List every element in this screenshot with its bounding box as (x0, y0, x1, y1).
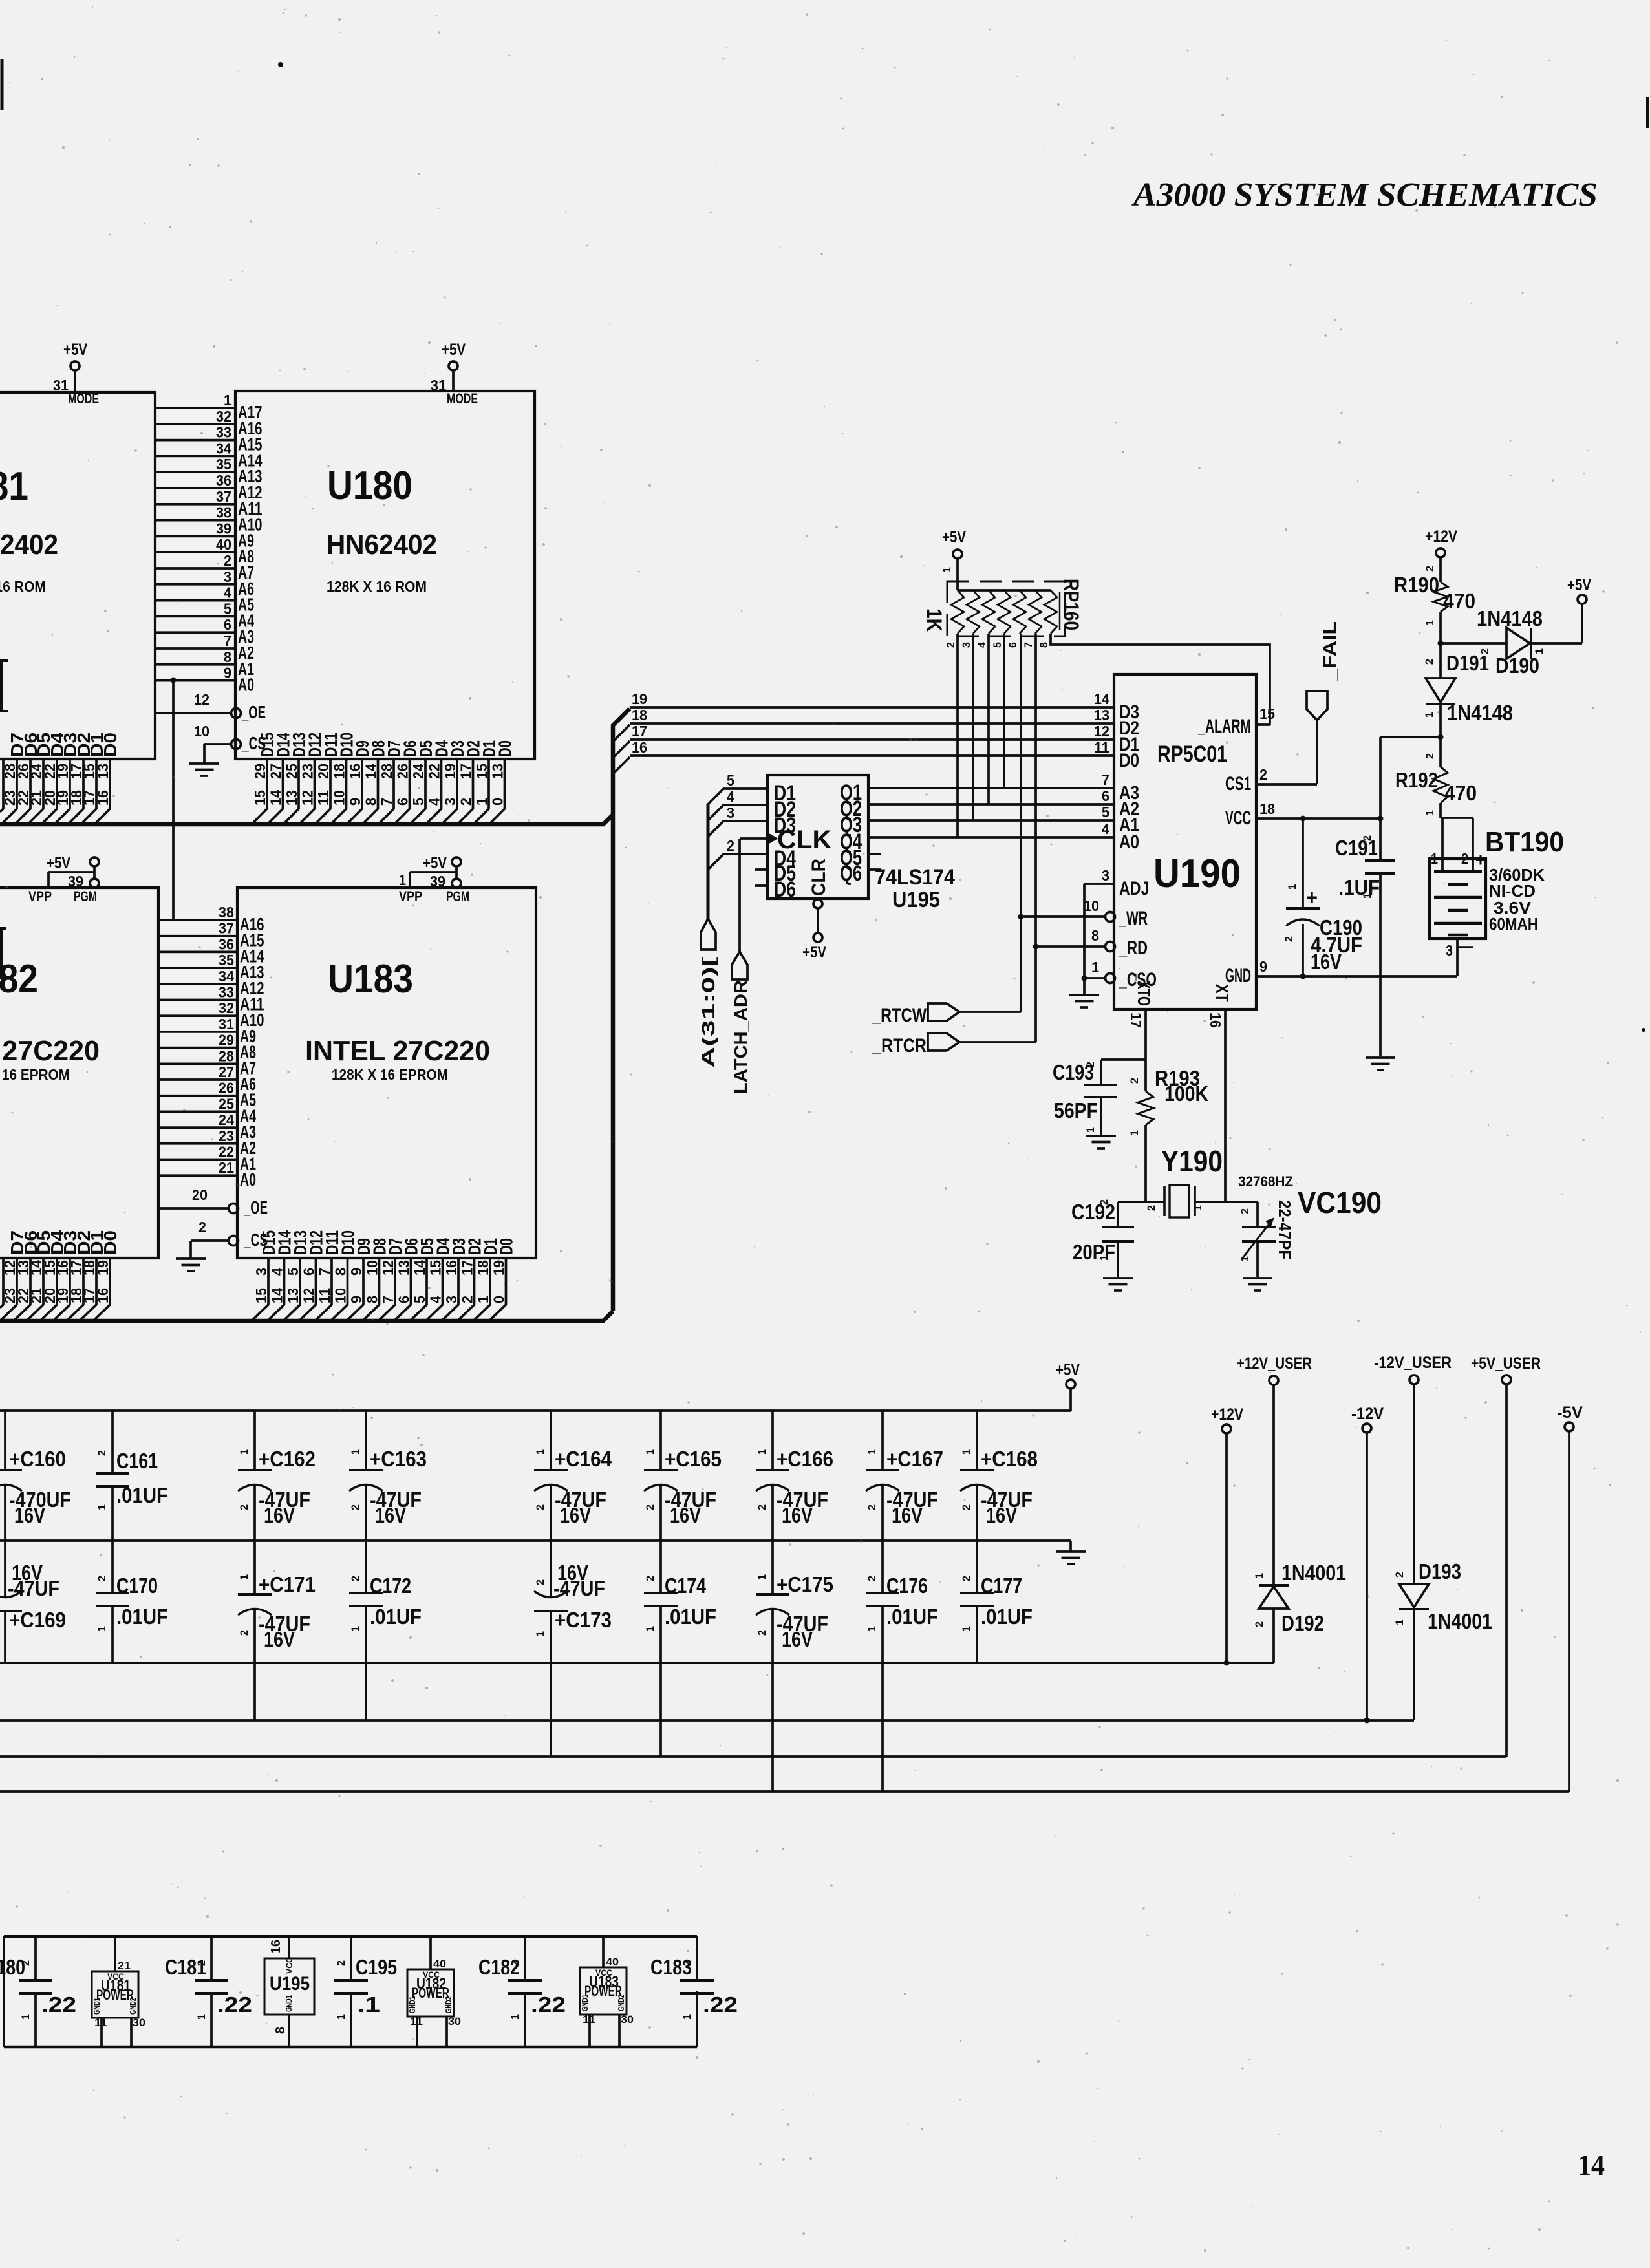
svg-text:5: 5 (727, 772, 734, 789)
svg-text:14: 14 (363, 764, 380, 779)
svg-text:.22: .22 (703, 1993, 738, 2017)
svg-text:+C171: +C171 (259, 1572, 316, 1596)
svg-text:C182: C182 (478, 1955, 520, 1979)
svg-text:16: 16 (632, 739, 647, 756)
svg-text:2: 2 (644, 1576, 656, 1581)
svg-text:31: 31 (219, 1016, 234, 1032)
svg-text:-12V_USER: -12V_USER (1374, 1354, 1452, 1372)
page edge mark right top (1646, 97, 1649, 128)
svg-text:9: 9 (224, 665, 231, 681)
svg-text:16: 16 (94, 1288, 111, 1303)
svg-text:128K X 16 ROM: 128K X 16 ROM (327, 578, 427, 595)
svg-text:39: 39 (430, 873, 445, 890)
wire RP160-3 pullup to A2 (987, 634, 990, 804)
+5V terminal right (1578, 595, 1587, 604)
svg-text:34: 34 (219, 968, 234, 985)
svg-text:GND2: GND2 (616, 1995, 626, 2011)
svg-text:30: 30 (133, 2017, 145, 2029)
svg-text:128K X 16 ROM: 128K X 16 ROM (0, 578, 46, 595)
U195 CLK input with clock triangle (767, 833, 777, 844)
wire D191 cathode to C191 branch (1380, 736, 1441, 738)
svg-text:15: 15 (427, 1260, 444, 1276)
svg-text:1: 1 (1424, 620, 1436, 626)
svg-text:22: 22 (426, 764, 443, 779)
wire CLK to LATCH_ADR flag (738, 839, 741, 952)
svg-text:1: 1 (1098, 1255, 1110, 1261)
svg-text:470: 470 (1443, 589, 1475, 613)
svg-text:1: 1 (1091, 959, 1099, 976)
svg-text:100K: 100K (1164, 1082, 1208, 1106)
resistor RP160 element 6 (1029, 590, 1042, 634)
svg-text:9: 9 (1259, 958, 1267, 975)
svg-text:2: 2 (349, 1576, 361, 1581)
svg-text:7: 7 (378, 798, 395, 806)
svg-text:11: 11 (583, 2013, 595, 2026)
svg-text:5: 5 (411, 1296, 428, 1303)
svg-text:2: 2 (960, 1576, 972, 1581)
svg-text:9: 9 (348, 1268, 365, 1276)
wire ROM address A0 pin 9 (155, 679, 235, 682)
IC U180 box (235, 391, 535, 759)
IC U182 power block (407, 1969, 454, 2017)
svg-text:MODE: MODE (447, 390, 478, 407)
svg-text:U182: U182 (0, 957, 38, 1001)
svg-text:GND2: GND2 (444, 1996, 453, 2013)
svg-text:3: 3 (1102, 867, 1109, 884)
U195 Q6 stub (868, 868, 881, 871)
resistor RP160 element 1 (951, 590, 964, 634)
svg-text:0: 0 (489, 798, 506, 806)
svg-text:+: + (1306, 886, 1318, 909)
svg-text:1: 1 (960, 1626, 972, 1632)
svg-text:1: 1 (238, 1574, 250, 1580)
svg-text:56PF: 56PF (1054, 1098, 1098, 1122)
svg-text:16: 16 (269, 1940, 283, 1954)
svg-text:.22: .22 (41, 1993, 76, 2017)
svg-text:2: 2 (681, 1960, 693, 1966)
wire EPROM address A10 pin 32 (158, 1014, 237, 1017)
svg-text:2: 2 (1424, 753, 1436, 759)
svg-text:+C169: +C169 (9, 1608, 66, 1632)
IC U183 box (237, 888, 536, 1258)
svg-text:+5V: +5V (942, 528, 966, 546)
wire EPROM address A9 pin 31 (158, 1031, 237, 1033)
U195 input D3 pin 3 wire (723, 820, 767, 822)
svg-text:A0: A0 (1119, 831, 1139, 853)
svg-text:.01UF: .01UF (370, 1605, 422, 1629)
svg-text:+C168: +C168 (981, 1447, 1038, 1471)
U190 _RD pin 8 bubble and wire (1036, 945, 1106, 948)
wire 45 join D1 to address bus (708, 789, 723, 804)
wire ground rail of capacitor bank (0, 1539, 1071, 1542)
svg-text:11: 11 (94, 2017, 107, 2029)
svg-text:6: 6 (396, 1296, 412, 1303)
svg-text:1: 1 (19, 2014, 32, 2020)
svg-text:1: 1 (195, 2014, 208, 2020)
svg-text:10: 10 (1084, 897, 1099, 914)
svg-text:13: 13 (489, 764, 506, 779)
wire EPROM address A11 pin 33 (158, 999, 237, 1001)
U183 _CS pin 2 with bubble (191, 1239, 229, 1242)
wire _RTCR to _RD (959, 1041, 1036, 1043)
wire ROM address A4 pin 5 (155, 615, 235, 618)
wire EPROM address A0 pin 21 (158, 1174, 237, 1177)
svg-text:D193: D193 (1419, 1559, 1461, 1583)
svg-text:1: 1 (1239, 1256, 1251, 1262)
diode D190 1N4148 (1506, 628, 1530, 659)
svg-text:-12V: -12V (1351, 1405, 1384, 1423)
svg-text:.22: .22 (531, 1993, 566, 2017)
svg-text:16V: 16V (986, 1503, 1017, 1527)
svg-text:29: 29 (219, 1032, 234, 1049)
svg-text:38: 38 (216, 504, 231, 521)
svg-text:-47UF: -47UF (8, 1576, 59, 1600)
svg-text:24: 24 (219, 1111, 234, 1128)
svg-text:CLR: CLR (808, 859, 830, 896)
svg-text:2: 2 (1259, 766, 1267, 783)
U182 data pin D8 (clipped at edge) (2, 1258, 5, 1305)
wire EPROM address A8 pin 29 (158, 1047, 237, 1049)
svg-text:R192: R192 (1395, 768, 1438, 792)
svg-text:+12V: +12V (1211, 1406, 1243, 1424)
svg-text:.22: .22 (217, 1993, 252, 2017)
IC U183 power block (580, 1967, 627, 2015)
U181 ground pins 11 30 wires (100, 2018, 103, 2047)
U183 _OE pin 20 with bubble (158, 1207, 229, 1210)
wire RP160-6 pullup to _RD and _RTCR (1034, 634, 1037, 1042)
U195 Q5 stub (868, 853, 881, 855)
svg-text:+: + (1475, 850, 1486, 871)
svg-text:D0: D0 (495, 740, 515, 757)
svg-text:7: 7 (1022, 642, 1034, 648)
svg-text:C161: C161 (116, 1449, 158, 1473)
svg-text:Q6: Q6 (840, 861, 862, 886)
svg-text:C195: C195 (356, 1955, 397, 1979)
wire RP160-5 pullup to _WR and _RTCW (1020, 634, 1022, 1012)
wire data bit 18 to U190 (630, 722, 1114, 725)
bus vertical riser joining data buses (613, 709, 630, 1311)
wire ROM address A8 pin 40 (155, 551, 235, 553)
svg-text:CS1: CS1 (1225, 773, 1251, 795)
U183 VCC pin 40 wire (602, 1936, 605, 1967)
wire ROM address A16 pin 32 (155, 423, 235, 425)
svg-text:16: 16 (94, 790, 111, 806)
svg-text:26: 26 (219, 1080, 234, 1097)
svg-text:7: 7 (224, 632, 231, 649)
+5V terminal above capacitor bank (1066, 1380, 1075, 1389)
svg-text:D0: D0 (100, 733, 120, 757)
wire ROM address A12 pin 36 (155, 487, 235, 489)
wire RP160-2 pullup to A1 (972, 634, 974, 820)
svg-text:14: 14 (411, 1260, 428, 1276)
svg-text:LATCH_ADR: LATCH_ADR (731, 980, 751, 1094)
wire crystal right node (1195, 1201, 1258, 1203)
svg-text:25: 25 (283, 764, 300, 779)
svg-text:15: 15 (1259, 705, 1275, 722)
svg-text:U195: U195 (270, 1973, 310, 1995)
svg-text:3: 3 (253, 1268, 270, 1276)
wire _RTCW to _WR (959, 1011, 1021, 1013)
svg-text:6: 6 (1007, 642, 1019, 648)
svg-text:-47UF: -47UF (553, 1576, 605, 1600)
svg-text:17: 17 (458, 764, 475, 779)
svg-text:11: 11 (410, 2015, 423, 2027)
svg-text:GND1: GND1 (407, 1996, 417, 2013)
wire EPROM address A13 pin 35 (158, 967, 237, 969)
svg-text:2: 2 (1461, 850, 1468, 867)
wire ROM address A7 pin 2 (155, 567, 235, 570)
svg-text:+12V_USER: +12V_USER (1237, 1354, 1312, 1373)
svg-text:8: 8 (1038, 642, 1050, 648)
svg-text:1: 1 (1423, 712, 1435, 718)
svg-text:1: 1 (0, 1631, 1, 1637)
svg-text:10: 10 (332, 1288, 349, 1303)
svg-text:20: 20 (315, 764, 332, 779)
svg-text:MODE: MODE (68, 390, 99, 407)
svg-text:+5V: +5V (63, 341, 87, 359)
svg-text:14: 14 (1578, 2148, 1605, 2181)
IC U195 74LS174 box (767, 775, 868, 899)
svg-text:1: 1 (224, 392, 231, 409)
wire EPROM address A5 pin 26 (158, 1095, 237, 1097)
svg-text:3: 3 (442, 798, 458, 806)
svg-text:11: 11 (315, 790, 332, 806)
svg-text:2: 2 (238, 1504, 250, 1510)
U182 VPP pin 1 wire (47, 872, 50, 888)
svg-text:2: 2 (1145, 1205, 1157, 1211)
wire RP160-4 pullup to A3 (1003, 634, 1005, 788)
svg-text:21: 21 (219, 1159, 234, 1176)
svg-text:VPP: VPP (28, 888, 52, 904)
svg-text:2: 2 (1424, 566, 1436, 572)
IC U181 power block (92, 1971, 138, 2018)
resistor RP160 element 4 (998, 590, 1011, 634)
VC190 trimmer arrow (1242, 1219, 1273, 1259)
svg-text:U183: U183 (328, 957, 413, 1001)
svg-text:XT: XT (1212, 984, 1232, 1002)
svg-text:1: 1 (941, 567, 953, 573)
svg-text:_RTCW: _RTCW (872, 1005, 927, 1026)
svg-text:3: 3 (960, 642, 972, 648)
svg-text:2: 2 (0, 1579, 1, 1585)
svg-text:128K X 16 EPROM: 128K X 16 EPROM (0, 1066, 70, 1083)
U195 input D1 pin 5 wire (723, 787, 767, 790)
wire ROM address A1 pin 8 (155, 663, 235, 666)
svg-text:1: 1 (1192, 1205, 1204, 1211)
svg-text:22-47PF: 22-47PF (1275, 1200, 1294, 1259)
svg-text:15: 15 (253, 1288, 270, 1303)
svg-text:INTEL 27C220: INTEL 27C220 (0, 1035, 100, 1067)
svg-text:16V: 16V (782, 1503, 813, 1527)
ground symbol at U180 _CS (203, 744, 206, 764)
wire RP160-1 pullup to A0 (956, 634, 959, 837)
svg-text:37: 37 (216, 488, 231, 505)
wire ROM address A5 pin 4 (155, 599, 235, 602)
svg-text:.1UF: .1UF (1338, 875, 1380, 899)
svg-text:1: 1 (1393, 1620, 1406, 1625)
svg-text:12: 12 (301, 1288, 317, 1303)
svg-text:1N4001: 1N4001 (1281, 1561, 1346, 1585)
svg-text:6: 6 (394, 798, 411, 806)
wire bus tap to line 18 (613, 725, 630, 742)
svg-text:1: 1 (349, 1449, 361, 1455)
svg-text:1: 1 (644, 1449, 656, 1455)
wire EPROM address A14 pin 36 (158, 951, 237, 954)
svg-text:2: 2 (198, 1219, 206, 1236)
svg-text:1: 1 (0, 1449, 1, 1455)
svg-text:12: 12 (194, 691, 209, 708)
node _FAIL flag (1307, 691, 1327, 720)
svg-text:2: 2 (224, 552, 231, 569)
wire bus tap to line 17 (613, 741, 630, 758)
svg-text:2: 2 (756, 1630, 768, 1636)
svg-text:2: 2 (195, 1960, 208, 1966)
svg-text:+5V: +5V (423, 854, 447, 872)
svg-text:4: 4 (976, 641, 988, 648)
svg-text:+C167: +C167 (886, 1447, 943, 1471)
wire 45 join D2 to address bus (708, 805, 723, 820)
svg-text:PGM: PGM (74, 888, 97, 904)
svg-text:INTEL 27C220: INTEL 27C220 (305, 1035, 490, 1067)
page edge mark left top (1, 59, 4, 110)
svg-text:2: 2 (1098, 1199, 1110, 1205)
svg-text:10: 10 (331, 790, 348, 806)
svg-text:12: 12 (299, 790, 316, 806)
U182 PGM pin 39 bubble (90, 879, 99, 888)
bus ROM data bus horizontal (0, 815, 613, 824)
svg-text:+5V_USER: +5V_USER (1471, 1354, 1541, 1373)
svg-text:2: 2 (458, 798, 475, 806)
svg-text:4: 4 (426, 798, 443, 806)
svg-text:2: 2 (756, 1504, 768, 1510)
svg-text:1: 1 (960, 1449, 972, 1455)
power row bottom rail (4, 2046, 697, 2049)
capacitor C193 56PF (1101, 1058, 1146, 1061)
svg-text:R190: R190 (1394, 573, 1439, 597)
svg-text:30: 30 (621, 2013, 634, 2026)
wire EPROM address A6 pin 27 (158, 1078, 237, 1081)
svg-text:13: 13 (396, 1260, 412, 1276)
svg-text:6: 6 (301, 1268, 317, 1276)
svg-text:VPP: VPP (399, 888, 422, 904)
svg-text:38: 38 (219, 904, 234, 921)
svg-text:RP5C01: RP5C01 (1157, 742, 1227, 767)
svg-text:16V: 16V (375, 1503, 406, 1527)
svg-text:2: 2 (1239, 1208, 1251, 1214)
svg-text:4: 4 (727, 788, 734, 805)
ground symbol at end of ground rail (1056, 1550, 1086, 1553)
wire RP160-7 to _ALARM net (1051, 634, 1270, 725)
svg-text:_WR: _WR (1119, 908, 1148, 929)
wire ROM address A2 pin 7 (155, 647, 235, 650)
svg-text:1: 1 (1361, 893, 1373, 899)
wire crystal left node (1118, 1201, 1164, 1203)
wire +5V rail of capacitor bank (0, 1409, 1071, 1412)
node A(31:0) bus flag (701, 919, 716, 950)
svg-text:1: 1 (866, 1626, 878, 1632)
speck near top (278, 62, 283, 67)
svg-text:8: 8 (273, 2027, 288, 2034)
svg-text:10: 10 (194, 723, 209, 740)
wire ROM A0 to EPROM A16 vertical (172, 680, 175, 920)
page edge mark left middle (0, 661, 3, 711)
svg-text:2: 2 (1128, 1078, 1141, 1084)
U181 data pin D8 (clipped at edge) (2, 759, 5, 809)
wire EPROM address A16 pin 38 (158, 919, 237, 921)
svg-text:8: 8 (364, 1296, 381, 1303)
svg-text:16V: 16V (670, 1503, 701, 1527)
U195 output Q2 wire to U190 (868, 803, 1114, 806)
wire 45 join D3 to address bus (708, 821, 723, 837)
svg-text:C193: C193 (1053, 1060, 1094, 1084)
svg-text:20: 20 (192, 1186, 208, 1203)
resistor RP160 element 2 (967, 590, 980, 634)
svg-text:+5V: +5V (1056, 1361, 1080, 1379)
svg-text:2: 2 (1393, 1572, 1406, 1578)
svg-text:9: 9 (348, 1296, 365, 1303)
svg-text:RP160: RP160 (1060, 579, 1083, 630)
svg-text:27: 27 (219, 1064, 234, 1080)
svg-text:VCC: VCC (1225, 808, 1251, 829)
U182 VCC pin 40 wire (429, 1936, 432, 1969)
svg-text:U180: U180 (327, 464, 412, 508)
svg-text:+C175: +C175 (777, 1572, 833, 1596)
svg-text:GND1: GND1 (284, 1995, 294, 2012)
svg-text:35: 35 (216, 456, 231, 473)
svg-text:_RD: _RD (1119, 937, 1148, 959)
svg-text:D192: D192 (1281, 1611, 1324, 1635)
svg-text:A0: A0 (238, 675, 254, 695)
svg-text:8: 8 (332, 1268, 349, 1276)
svg-text:D191: D191 (1446, 651, 1489, 675)
bus A(31:0) vertical (707, 804, 710, 919)
svg-text:1: 1 (534, 1449, 546, 1455)
svg-text:19: 19 (632, 690, 647, 707)
svg-text:14: 14 (269, 1288, 286, 1303)
svg-text:36: 36 (219, 936, 234, 952)
power row right edge upper (696, 1936, 698, 1978)
U195 output Q1 wire to U190 (868, 787, 1114, 789)
wire ROM address A13 pin 35 (155, 471, 235, 473)
U195 input D4 pin 2 wire (723, 853, 767, 855)
svg-text:28: 28 (378, 764, 395, 779)
svg-text:2: 2 (534, 1504, 546, 1510)
svg-text:_RTCR: _RTCR (872, 1035, 927, 1056)
svg-text:32: 32 (219, 1000, 234, 1016)
svg-text:1: 1 (681, 2014, 693, 2020)
svg-text:2: 2 (1423, 659, 1435, 665)
svg-text:D0: D0 (100, 1230, 120, 1255)
svg-text:1: 1 (475, 1296, 491, 1303)
svg-text:2: 2 (1361, 835, 1373, 841)
svg-text:32768HZ: 32768HZ (1238, 1173, 1293, 1190)
wire data bit 17 to U190 (630, 738, 1114, 741)
svg-text:3: 3 (727, 804, 734, 821)
svg-text:28: 28 (219, 1047, 234, 1064)
svg-text:4: 4 (427, 1296, 444, 1303)
svg-text:_FAIL: _FAIL (1320, 621, 1340, 681)
svg-text:+5V: +5V (802, 943, 826, 961)
svg-text:33: 33 (219, 984, 234, 1001)
resistor RP160 element 3 (982, 590, 995, 634)
U190 _CSO pin 1 bubble and wire (1084, 977, 1106, 979)
svg-text:1: 1 (534, 1631, 546, 1637)
svg-text:2: 2 (1283, 936, 1295, 942)
svg-text:1N4148: 1N4148 (1477, 606, 1543, 630)
wire ROM address A15 pin 33 (155, 439, 235, 442)
svg-text:24: 24 (410, 764, 427, 779)
svg-text:6: 6 (1102, 787, 1109, 804)
